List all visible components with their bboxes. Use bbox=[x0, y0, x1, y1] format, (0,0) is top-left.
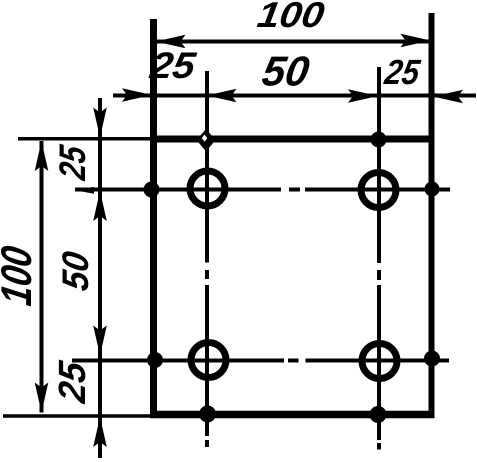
hole bottom-left bbox=[191, 343, 226, 378]
arrow 25-col top outside (points down) bbox=[93, 108, 107, 138]
hole top-right bbox=[361, 173, 396, 208]
dimension line 100 top bbox=[156, 40, 431, 44]
svg-text:100: 100 bbox=[0, 243, 41, 309]
centerline row 2 right bbox=[306, 359, 450, 363]
centerline column right upper bbox=[377, 67, 381, 263]
dimension line 25/50/25 left column bbox=[98, 98, 102, 458]
extension line bottom (bottom edge extended left) bbox=[3, 414, 150, 418]
plate left edge (also extension line for top 100 dim) bbox=[150, 19, 157, 418]
junction dot bottom edge right bbox=[370, 406, 387, 423]
centerline column right dot bbox=[377, 270, 381, 280]
dimension line 100 left bbox=[40, 141, 44, 413]
dimension line 25/50/25 top row bbox=[113, 94, 476, 98]
junction dot right edge row2 bbox=[424, 351, 440, 367]
hole bottom-right bbox=[362, 344, 397, 379]
junction dot left edge row2 bbox=[147, 352, 163, 368]
junction dot right edge row1 bbox=[425, 182, 440, 197]
centerline column left tail dot bbox=[205, 440, 209, 447]
arrow 100-left top (points up) bbox=[35, 141, 49, 171]
arrow 100-left bottom (points down) bbox=[35, 383, 49, 413]
junction dot top edge left (diamond) bbox=[197, 129, 216, 152]
svg-text:25: 25 bbox=[381, 53, 422, 92]
centerline column right tail dot bbox=[377, 443, 381, 450]
centerline column left dot bbox=[205, 270, 209, 279]
centerline column right lower bbox=[377, 285, 381, 440]
arrow 25-col bottom outside (points up) bbox=[93, 417, 107, 447]
svg-text:100: 100 bbox=[255, 0, 327, 35]
arrow 100-top left bbox=[156, 35, 186, 49]
junction dot bottom edge left bbox=[199, 406, 216, 423]
centerline row 1 left+dash bbox=[75, 188, 281, 192]
arrow 50-top right (points right) bbox=[348, 89, 378, 103]
arrow 25-right outside (points left) bbox=[433, 90, 463, 104]
svg-text:25: 25 bbox=[51, 358, 94, 406]
centerline row 1 dot bbox=[289, 188, 300, 192]
svg-text:50: 50 bbox=[54, 248, 96, 293]
junction dot pinhole bbox=[202, 135, 208, 142]
centerline row 2 left+dash bbox=[72, 359, 284, 363]
centerline column left upper bbox=[205, 71, 209, 263]
arrow 25-left outside (points right) bbox=[122, 88, 152, 102]
svg-text:25: 25 bbox=[51, 142, 93, 183]
svg-text:50: 50 bbox=[259, 48, 313, 95]
arrow 50-top left (points left) bbox=[207, 89, 237, 103]
taper at left end of row 1 centerline bbox=[75, 187, 94, 194]
arrow 50-col bottom (points down) bbox=[93, 326, 107, 356]
plate top edge bbox=[150, 136, 435, 143]
junction dot top edge right bbox=[371, 132, 387, 148]
junction dot left edge row1 bbox=[144, 182, 160, 198]
centerline column left lower bbox=[205, 285, 209, 436]
extension line top-left (top edge extended left) bbox=[18, 137, 150, 141]
centerline row 1 right bbox=[305, 188, 450, 192]
plate right edge (also extension line for top 100 dim) bbox=[429, 13, 435, 418]
centerline row 2 dot bbox=[288, 359, 299, 363]
arrow 50-col top (points up) bbox=[93, 191, 107, 221]
plate bottom edge bbox=[150, 411, 435, 419]
hole top-left bbox=[190, 171, 225, 206]
arrow 100-top right bbox=[401, 34, 431, 48]
svg-text:25: 25 bbox=[147, 44, 200, 86]
